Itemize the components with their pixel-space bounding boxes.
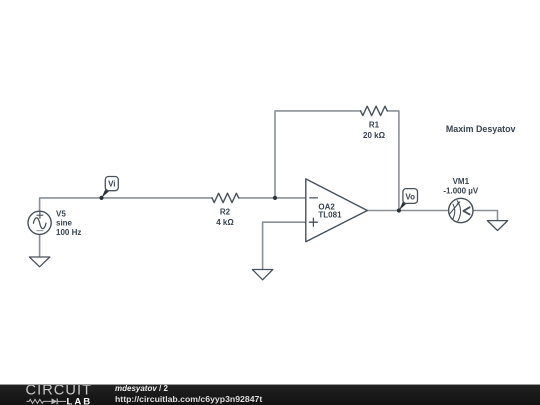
label V5 sine 100 Hz [56, 209, 81, 237]
label R2 4 kOhm [216, 208, 234, 227]
svg-text:100 Hz: 100 Hz [56, 228, 81, 237]
CircuitLab logo [0, 385, 100, 405]
svg-text:-1.000 µV: -1.000 µV [443, 187, 479, 196]
svg-text:LAB: LAB [67, 396, 93, 405]
svg-text:R1: R1 [369, 121, 380, 130]
ground (voltmeter) [487, 221, 507, 231]
title Maxim Desyatov [446, 124, 516, 134]
svg-text:Vi: Vi [108, 180, 115, 189]
resistor R1 [361, 106, 388, 115]
junction node (feedback tap) [273, 196, 277, 200]
svg-text:TL081: TL081 [318, 211, 342, 220]
svg-text:sine: sine [56, 219, 73, 228]
wire: voltmeter to ground [473, 211, 498, 221]
wire: op-amp output to voltmeter [367, 210, 449, 212]
label R1 20 kOhm [363, 121, 386, 140]
resistor R2 [212, 193, 239, 202]
wire: non-inverting input to ground [263, 222, 306, 269]
footer text: user / schematic [115, 384, 168, 394]
ground (op-amp + input) [252, 270, 272, 280]
footer text: url [115, 394, 262, 404]
svg-text:20 kΩ: 20 kΩ [363, 131, 386, 140]
ground (V5) [29, 257, 49, 267]
svg-text:4 kΩ: 4 kΩ [216, 218, 234, 227]
voltage source V5 [28, 211, 51, 234]
svg-text:VM1: VM1 [453, 177, 470, 186]
svg-text:Vo: Vo [405, 192, 415, 201]
node flag Vi [99, 177, 118, 200]
voltmeter VM1 [449, 198, 473, 222]
node flag Vo [397, 189, 418, 213]
label OA2 TL081 [318, 203, 342, 220]
wire: V5 bottom to ground [39, 234, 41, 257]
wire: feedback left vertical and top run to R1 [275, 111, 361, 198]
svg-text:R2: R2 [220, 208, 231, 217]
wire: R2 right to op-amp inverting input [239, 197, 306, 199]
svg-text:V5: V5 [56, 209, 66, 218]
svg-text:Maxim Desyatov: Maxim Desyatov [446, 124, 516, 134]
op-amp OA2 [306, 179, 368, 242]
label VM1 -1.000 uV [443, 177, 479, 195]
wire: V5 top to R2 left (node Vi) [40, 198, 212, 212]
wire: R1 right, down to output node [387, 111, 399, 211]
footer bar [0, 384, 540, 405]
